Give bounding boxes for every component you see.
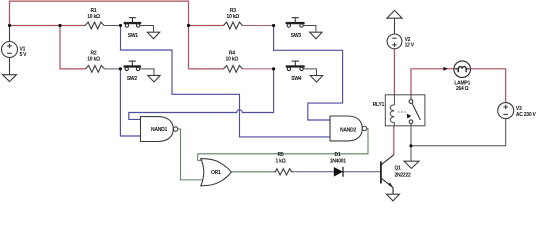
svg-text:Q1: Q1 xyxy=(395,166,402,172)
label R1 10 kΩ xyxy=(87,8,100,20)
svg-text:10 kΩ: 10 kΩ xyxy=(227,14,240,20)
wire: R3 feed xyxy=(189,25,224,27)
node R1/R2 feed junction xyxy=(58,24,61,27)
label RLY1 xyxy=(373,102,385,108)
label NAND2 xyxy=(340,127,356,133)
wire: V2 to relay coil xyxy=(393,49,395,95)
wire: relay contact to LAMP1 xyxy=(411,69,454,95)
resistor R4 xyxy=(224,66,243,73)
wire: R3 right to SW3 node xyxy=(243,25,274,27)
wire SW4 to ground xyxy=(303,69,316,76)
switch SW1 xyxy=(124,18,141,27)
wire: drop to R2 row xyxy=(60,26,86,69)
wire: NAND1 output to OR1 input B (green) xyxy=(178,129,204,180)
wire: D1 to Q1 base xyxy=(344,171,381,173)
label V1 5 V xyxy=(20,47,28,59)
svg-text:R1: R1 xyxy=(91,8,97,14)
label D1 1N4001 xyxy=(330,152,346,165)
label SW1 xyxy=(128,33,139,39)
node V1 rail junction xyxy=(8,24,11,27)
svg-text:SW2: SW2 xyxy=(127,76,138,82)
switch SW3 xyxy=(286,18,304,27)
NAND gate NAND2 xyxy=(330,116,367,141)
wire: OR1 output to R5 xyxy=(231,171,274,173)
current arrow on lamp wire xyxy=(443,67,448,71)
wire: R1 right to SW1 node xyxy=(104,25,121,27)
svg-text:1 kΩ: 1 kΩ xyxy=(276,159,286,165)
wire: R4 feed xyxy=(189,68,224,70)
node A (R1/SW1) xyxy=(119,24,122,27)
svg-text:NAND1: NAND1 xyxy=(151,127,167,133)
wire: SW3 node to NAND2 input A xyxy=(274,26,343,121)
svg-text:SW3: SW3 xyxy=(291,33,302,39)
svg-text:V3: V3 xyxy=(516,106,522,112)
svg-text:D1: D1 xyxy=(335,152,341,158)
node relay/V3 return junction xyxy=(409,144,412,147)
resistor R2 xyxy=(86,66,105,73)
label R4 10 kΩ xyxy=(226,51,239,63)
wire SW3 to ground xyxy=(303,26,316,33)
switch SW2 xyxy=(124,61,141,71)
wire: SW1 node to NAND2 input B (navy, with hop) xyxy=(121,26,331,137)
wire: NAND2 output to OR1 input A (green) xyxy=(198,129,368,161)
svg-text:10 kΩ: 10 kΩ xyxy=(87,57,100,63)
resistor R3 xyxy=(224,22,243,29)
label R3 10 kΩ xyxy=(227,8,240,20)
svg-text:RLY1: RLY1 xyxy=(373,102,385,108)
label SW3 xyxy=(291,33,302,39)
wire: relay contact bottom to ground xyxy=(410,126,412,161)
switch SW4 xyxy=(286,61,304,71)
ground V1 xyxy=(3,75,17,82)
label NAND1 xyxy=(151,127,167,133)
source V2 xyxy=(387,10,402,48)
label SW2 xyxy=(127,76,138,82)
svg-text:AC 230 V: AC 230 V xyxy=(516,112,537,118)
label LAMP1 264 Ω xyxy=(454,80,470,91)
wire: V1 to R1 row xyxy=(10,25,86,27)
wire: R5 to D1 xyxy=(293,171,334,173)
wire: R2 right to SW2 node xyxy=(105,68,121,70)
svg-text:NAND2: NAND2 xyxy=(340,127,356,133)
ground Q1 xyxy=(387,194,400,201)
node R3/R4 feed junction xyxy=(187,24,190,27)
NAND gate NAND1 xyxy=(141,117,178,142)
node C (R3/SW3) xyxy=(272,24,275,27)
relay RLY1 xyxy=(385,95,425,126)
svg-text:264 Ω: 264 Ω xyxy=(456,86,469,92)
wire: V1 top rail red to R3/R4 feed xyxy=(10,1,189,69)
svg-text:SW1: SW1 xyxy=(128,33,139,39)
wire: V3 return to relay contact ground xyxy=(411,119,506,146)
wire: SW4 node to NAND1 input A xyxy=(129,69,274,120)
ground SW1 xyxy=(147,32,159,39)
label V2 12 V xyxy=(405,37,415,49)
svg-text:10 kΩ: 10 kΩ xyxy=(226,57,239,63)
svg-text:OR1: OR1 xyxy=(211,170,221,176)
transistor Q1 xyxy=(381,155,394,194)
wire: relay coil to Q1 collector xyxy=(393,126,395,155)
label R5 1 kΩ xyxy=(276,152,286,164)
ground SW3 xyxy=(310,32,322,39)
resistor R5 xyxy=(274,169,294,175)
svg-text:5 V: 5 V xyxy=(20,52,28,58)
node B (R2/SW2) xyxy=(119,67,122,70)
lamp LAMP1 xyxy=(454,61,471,78)
ground SW4 xyxy=(310,76,322,83)
svg-text:12 V: 12 V xyxy=(405,42,415,48)
label SW4 xyxy=(291,76,302,82)
source V3 xyxy=(498,103,514,119)
wire SW2 to ground xyxy=(140,69,154,76)
svg-text:10 kΩ: 10 kΩ xyxy=(87,14,100,20)
ground relay/V3 xyxy=(404,161,419,168)
wire: LAMP1 to V3 xyxy=(471,69,506,103)
wire SW1 to ground xyxy=(140,26,154,33)
svg-text:1N4001: 1N4001 xyxy=(330,159,346,165)
label V3 AC 230 V xyxy=(516,106,537,118)
svg-text:SW4: SW4 xyxy=(291,76,302,82)
resistor R1 xyxy=(85,22,104,29)
diode D1 xyxy=(334,167,343,177)
OR gate OR1 xyxy=(201,159,231,186)
wire: SW2 node to NAND1 input B xyxy=(120,69,140,136)
label OR1 xyxy=(211,170,221,176)
ground SW2 xyxy=(148,75,160,82)
label R2 10 kΩ xyxy=(87,51,100,63)
wire: R4 right to SW4 node xyxy=(243,68,274,70)
svg-text:2N2222: 2N2222 xyxy=(395,173,411,179)
svg-text:R5: R5 xyxy=(278,152,284,158)
node D (R4/SW4) xyxy=(272,67,275,70)
source V1 xyxy=(2,26,18,75)
svg-text:R3: R3 xyxy=(230,8,236,14)
label Q1 2N2222 xyxy=(395,166,411,179)
